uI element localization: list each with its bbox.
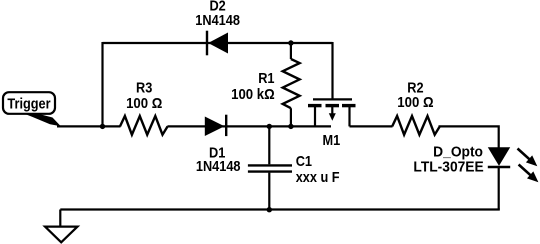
- svg-text:1N4148: 1N4148: [196, 157, 241, 174]
- resistor R2: [392, 116, 440, 135]
- transistor M1: [331, 42, 333, 99]
- svg-text:100 kΩ: 100 kΩ: [231, 85, 275, 102]
- node dot C1 top junction: [267, 124, 272, 129]
- node dot left junction: [100, 124, 105, 129]
- svg-text:M1: M1: [323, 131, 341, 148]
- LED D_Opto: [488, 147, 510, 166]
- svg-text:1N4148: 1N4148: [195, 11, 240, 28]
- LED light arrow 1: [518, 149, 530, 160]
- LED light arrow 2: [519, 165, 531, 176]
- svg-text:R1: R1: [258, 69, 275, 86]
- wire ground stub: [59, 210, 61, 227]
- svg-text:100 Ω: 100 Ω: [126, 94, 162, 111]
- svg-text:xxx u F: xxx u F: [296, 168, 340, 185]
- diode D1: [205, 117, 225, 137]
- node dot R1 top junction: [288, 40, 293, 45]
- node dot C1 bottom junction: [267, 207, 272, 212]
- wire R2 to LED corner: [439, 126, 499, 147]
- wire middle trigger to R3: [57, 125, 121, 127]
- svg-text:100 Ω: 100 Ω: [397, 93, 433, 110]
- ground: [45, 227, 78, 243]
- svg-text:R3: R3: [136, 78, 153, 95]
- node dot R1 bottom junction: [288, 124, 293, 129]
- resistor R1: [290, 43, 292, 59]
- wire left vertical: [101, 42, 103, 126]
- wire M1 drain to R2: [350, 125, 393, 127]
- svg-text:LTL-307EE: LTL-307EE: [413, 159, 484, 176]
- node Trigger callout: [3, 92, 55, 114]
- wire top rail: [103, 42, 333, 44]
- wire R3 to D1 to M1 source: [167, 125, 331, 127]
- capacitor C1: [268, 126, 270, 164]
- svg-text:C1: C1: [296, 152, 313, 169]
- resistor R3: [120, 116, 168, 135]
- svg-text:Trigger: Trigger: [7, 94, 51, 111]
- wire bottom rail: [60, 208, 500, 210]
- diode D2: [206, 31, 208, 56]
- wire LED cathode down: [498, 167, 500, 210]
